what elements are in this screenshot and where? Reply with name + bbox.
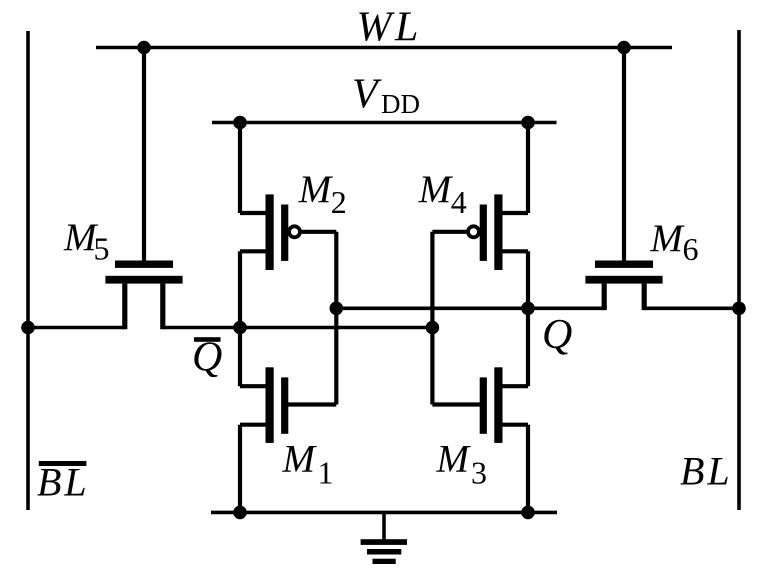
svg-text:BL: BL [37,459,90,504]
transistor M6 gate bar [595,261,653,268]
wire M1 source to GND [240,425,267,513]
junction dot GND right [521,506,535,520]
transistor M1 gate bar [281,377,288,433]
junction dot Q to M2 gate [330,302,344,316]
wire right gate vertical (M4/M3 gates) [430,232,434,405]
transistor M6 gate wire [622,48,626,261]
junction dot VDD left [233,116,247,130]
wire M2 gate lead [300,230,336,234]
ground bar 1 [361,539,407,545]
transistor M6 source leg [602,284,607,311]
wire BLbar vertical line [26,31,30,510]
wire M3 gate lead [432,402,481,406]
transistor M2 bubble [289,226,300,237]
junction dot node Qbar [233,321,247,335]
svg-text:M: M [282,438,318,481]
transistor M5 source wire to BLbar [28,326,125,330]
wire M3 source to GND [501,425,528,513]
transistor M2 channel bar [266,194,274,270]
transistor M3 channel bar [494,367,502,443]
wire VDD horizontal [212,121,557,125]
junction dot BL [732,302,746,316]
wire M4 source from VDD [501,123,528,214]
ground stem [382,512,386,539]
wire WL horizontal [96,46,672,50]
svg-text:Q: Q [192,335,222,381]
wire M4 drain to Q [501,251,528,386]
junction dot node Q [521,302,535,316]
svg-text:M: M [649,217,685,260]
junction dot Qbar to M3 gate [426,321,440,335]
transistor M5 channel bar [105,276,182,284]
wire left gate vertical (M2/M1 gates) [334,232,338,405]
junction dot WL left [137,41,151,55]
svg-text:V: V [352,72,382,118]
wire M2 source from VDD [240,123,267,214]
svg-text:WL: WL [357,5,422,51]
node Q wire [336,306,604,310]
label Qbar overbar [194,337,221,342]
svg-text:M: M [418,168,454,211]
wire M2 drain to Qbar [240,251,267,386]
transistor M3 gate bar [480,377,487,433]
wire M4 gate lead [432,230,467,234]
transistor M5 source leg [122,284,127,330]
junction dot GND left [233,506,247,520]
transistor M5 gate bar [115,261,173,268]
transistor M6 channel bar [585,276,662,284]
wire M1 gate lead [287,402,336,406]
junction dot WL right [617,41,631,55]
svg-text:M: M [436,438,472,481]
svg-text:1: 1 [318,454,334,490]
svg-text:4: 4 [451,184,467,220]
transistor M4 channel bar [494,194,502,270]
transistor M5 gate wire [142,48,146,261]
wire GND rail horizontal [211,511,557,515]
svg-text:6: 6 [683,231,699,267]
svg-text:5: 5 [94,230,110,266]
svg-text:M: M [298,168,334,211]
svg-text:3: 3 [471,454,487,490]
wire BL vertical line [737,30,741,510]
svg-text:DD: DD [381,89,420,119]
transistor M5 drain leg [160,284,165,330]
transistor M6 drain wire to BL [644,306,739,310]
junction dot VDD right [521,116,535,130]
svg-text:2: 2 [331,184,347,220]
node Qbar wire [163,326,433,330]
ground bar 3 [373,559,396,564]
transistor M4 gate bar [480,205,487,261]
transistor M1 channel bar [266,367,274,443]
transistor M4 bubble [468,226,479,237]
label BLbar overbar [39,461,87,466]
wire M1 drain leg [240,384,267,388]
transistor M6 drain leg [642,284,647,311]
ground bar 2 [367,549,401,555]
transistor M2 gate bar [281,205,288,261]
svg-text:Q: Q [542,312,572,358]
wire M3 drain leg [501,384,528,388]
junction dot BLbar [21,321,35,335]
svg-text:BL: BL [680,449,733,494]
